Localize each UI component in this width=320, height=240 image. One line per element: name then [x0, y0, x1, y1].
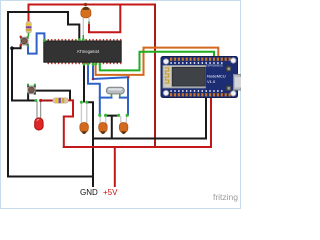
wire red NodeMCU to +5V rail — [210, 96, 212, 147]
wire green U1 to NodeMCU — [100, 52, 214, 71]
wire black GND rail — [93, 138, 206, 140]
capacitor C2 — [80, 101, 89, 134]
ESP module — [163, 65, 206, 88]
RST button — [226, 66, 232, 72]
svg-text:V1.0: V1.0 — [207, 79, 216, 84]
NodeMCU U2 board — [161, 57, 241, 98]
wire blue crystal left leg stub — [100, 97, 112, 99]
node green dots NodeMCU wire ends — [213, 58, 216, 61]
wire red C1 to rail — [89, 6, 120, 33]
pushbutton SW1 — [20, 36, 29, 47]
wire black NodeMCU to GND rail — [205, 96, 207, 139]
USB connector — [234, 75, 242, 91]
wire red drop to R1 — [28, 5, 30, 23]
svg-text:GND: GND — [80, 188, 98, 197]
svg-text:+5V: +5V — [103, 188, 118, 197]
node red junction on rail — [84, 3, 87, 6]
wire black SW2 left leg stub — [27, 94, 29, 101]
wire blue crystal right leg stub — [120, 97, 128, 99]
capacitor C4 — [117, 114, 129, 134]
svg-text:ESP8266MOD: ESP8266MOD — [206, 64, 223, 68]
capacitor C1 top — [81, 7, 91, 40]
mounting holes — [163, 59, 168, 64]
IC U1 ATmega644 — [44, 39, 122, 64]
LED D1 — [34, 99, 43, 130]
wire orange U1 to NodeMCU — [96, 48, 219, 75]
wire blue U1 XTAL1 to C3 — [88, 64, 100, 115]
pushbutton SW2 — [27, 84, 36, 95]
wire blue U1 XTAL2 to C4 — [93, 64, 128, 115]
capacitor C3 — [98, 114, 107, 134]
wire black top frame — [8, 12, 79, 40]
node green dots U1 top pin wire ends — [78, 38, 81, 41]
crystal Y1 — [106, 87, 124, 97]
wire red +5V vertical right — [154, 5, 156, 148]
svg-text:ATmega644: ATmega644 — [77, 49, 100, 54]
wire black GND line to LED — [12, 100, 36, 102]
wire red +5V rail — [64, 146, 211, 148]
wire blue SW1 to U1 pin — [28, 33, 44, 53]
node green dots U1 bottom pin wire ends — [83, 63, 86, 66]
resistor R2 horizontal — [53, 98, 69, 103]
pin labels bottom — [170, 90, 222, 92]
wire black button SW1 to GND frame — [12, 46, 21, 101]
node green dot U1 pin1 blue wire end — [43, 39, 46, 42]
pin row bottom — [170, 93, 231, 96]
wire black C3 C4 to GND rail — [106, 116, 119, 139]
FLASH button — [226, 86, 232, 92]
wire dark red LED to R2 — [41, 100, 53, 102]
svg-text:fritzing: fritzing — [213, 192, 238, 202]
wire red +5V terminal stub — [114, 147, 116, 186]
wire black SW2 right leg to R2 junction — [35, 91, 70, 100]
pin row top — [170, 58, 231, 61]
node black junction — [10, 46, 14, 50]
wire red R2 to +5V rail — [64, 100, 73, 147]
wire black C2 right to GND lead — [87, 102, 93, 186]
wire red top rail — [29, 4, 156, 6]
antenna traces — [165, 68, 170, 83]
svg-text:NodeMCU: NodeMCU — [207, 74, 226, 79]
wire black left frame — [8, 12, 93, 177]
resistor R1 vertical — [26, 22, 31, 37]
frame border — [1, 1, 241, 209]
pin labels top — [170, 62, 222, 64]
wire black U1 pin to C2 — [83, 64, 85, 102]
